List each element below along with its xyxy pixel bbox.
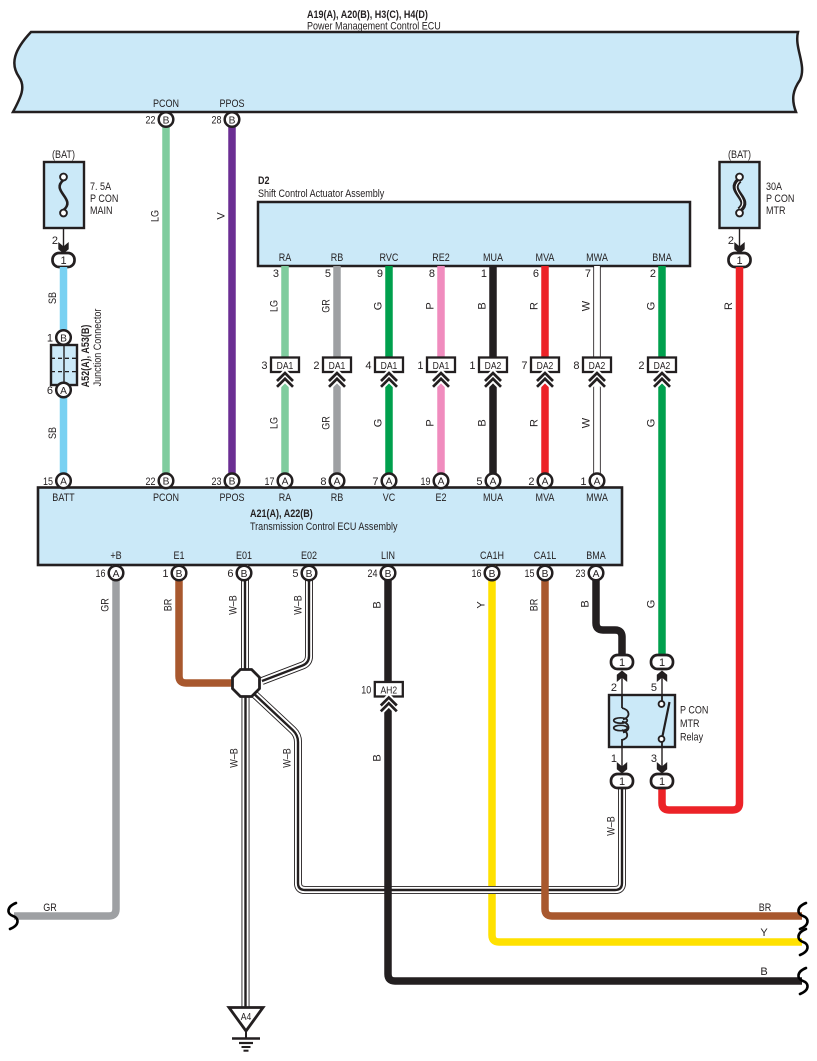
svg-text:PPOS: PPOS (219, 492, 244, 504)
svg-text:BR: BR (163, 599, 175, 612)
svg-text:23: 23 (576, 568, 586, 580)
svg-text:PCON: PCON (153, 492, 179, 504)
pin 16(B) CA1H bottom (485, 566, 500, 581)
svg-text:9: 9 (377, 268, 383, 280)
svg-text:W–B: W–B (606, 816, 618, 836)
svg-text:R: R (723, 302, 735, 310)
wire W-B E01 to splice (241, 565, 249, 676)
svg-text:3: 3 (651, 753, 657, 765)
svg-text:B: B (60, 333, 67, 344)
svg-text:B: B (385, 569, 392, 580)
svg-text:2: 2 (650, 268, 656, 280)
connector 8 DA2 at x=597 (583, 358, 611, 373)
connector 1 DA2 at x=493 (479, 358, 507, 373)
svg-text:BR: BR (759, 902, 772, 914)
svg-text:1: 1 (469, 360, 475, 372)
svg-text:2: 2 (528, 476, 534, 488)
svg-text:RB: RB (331, 252, 344, 264)
svg-text:MTR: MTR (766, 205, 786, 217)
svg-text:A: A (60, 386, 67, 397)
svg-text:B: B (176, 569, 183, 580)
svg-text:B: B (580, 600, 592, 607)
pin 1(A) MWA top (590, 474, 605, 489)
svg-text:B: B (477, 419, 489, 426)
svg-text:1: 1 (47, 333, 53, 345)
svg-text:1: 1 (60, 255, 66, 267)
svg-text:8: 8 (573, 360, 579, 372)
svg-text:B: B (372, 754, 384, 761)
wire SB (60, 267, 68, 481)
wire GR +B (14, 565, 116, 916)
svg-text:P CON: P CON (90, 193, 118, 205)
svg-text:A: A (386, 477, 393, 488)
svg-text:W: W (581, 417, 593, 428)
break mark BR right (798, 903, 807, 929)
svg-text:P CON: P CON (680, 705, 708, 717)
svg-text:A21(A), A22(B): A21(A), A22(B) (250, 508, 313, 520)
connector 3 DA1 at x=285 (271, 358, 299, 373)
svg-text:B: B (372, 601, 384, 608)
pin 7(A) VC top (382, 474, 397, 489)
svg-text:Shift Control Actuator Assembl: Shift Control Actuator Assembly (258, 188, 385, 200)
svg-text:3: 3 (261, 360, 267, 372)
svg-text:GR: GR (321, 416, 333, 430)
wire PCON LG (162, 112, 170, 481)
svg-text:A: A (60, 477, 67, 488)
svg-text:23: 23 (212, 476, 222, 488)
svg-text:G: G (646, 419, 658, 428)
svg-text:CA1H: CA1H (480, 550, 504, 562)
svg-text:MTR: MTR (680, 718, 700, 730)
wire BR CA1L (545, 565, 802, 916)
svg-text:MAIN: MAIN (90, 205, 113, 217)
svg-text:5: 5 (325, 268, 331, 280)
svg-text:RE2: RE2 (432, 252, 450, 264)
svg-text:5: 5 (292, 568, 298, 580)
svg-text:B: B (163, 477, 170, 488)
svg-text:Transmission Control ECU Assem: Transmission Control ECU Assembly (250, 521, 398, 533)
svg-text:W–B: W–B (229, 748, 241, 768)
connector 4 DA1 at x=389 (375, 358, 403, 373)
pin 24(B) LIN bottom (381, 566, 396, 581)
svg-text:MUA: MUA (483, 492, 504, 504)
svg-text:V: V (216, 212, 228, 220)
wire R from D2 x=545 (541, 266, 549, 481)
pin 1(B) E1 bottom (172, 566, 187, 581)
svg-text:LG: LG (269, 300, 281, 312)
svg-text:R: R (529, 419, 541, 427)
svg-text:7. 5A: 7. 5A (90, 181, 112, 193)
svg-text:Relay: Relay (680, 732, 704, 744)
svg-text:1: 1 (736, 255, 742, 267)
svg-text:2: 2 (611, 682, 617, 694)
svg-text:MWA: MWA (586, 492, 608, 504)
svg-text:15: 15 (43, 476, 53, 488)
connector 1 DA1 at x=441 (427, 358, 455, 373)
svg-text:B: B (229, 477, 236, 488)
svg-text:A19(A), A20(B), H3(C), H4(D): A19(A), A20(B), H3(C), H4(D) (307, 9, 428, 21)
svg-text:1: 1 (481, 268, 487, 280)
svg-text:2: 2 (313, 360, 319, 372)
svg-text:D2: D2 (258, 175, 270, 187)
svg-text:5: 5 (476, 476, 482, 488)
svg-text:A: A (490, 477, 497, 488)
svg-text:PCON: PCON (153, 98, 179, 110)
svg-text:A: A (542, 477, 549, 488)
svg-text:22: 22 (146, 476, 156, 488)
wire G from D2 x=389 (385, 266, 393, 481)
svg-text:1: 1 (619, 657, 625, 669)
wire LG from D2 x=285 (281, 266, 289, 481)
svg-text:1: 1 (162, 568, 168, 580)
svg-text:VC: VC (383, 492, 396, 504)
svg-text:28: 28 (212, 115, 222, 127)
connector 7 DA2 at x=545 (531, 358, 559, 373)
svg-text:B: B (241, 569, 248, 580)
svg-text:RB: RB (331, 492, 344, 504)
svg-text:17: 17 (265, 476, 275, 488)
svg-text:1: 1 (580, 476, 586, 488)
svg-text:3: 3 (273, 268, 279, 280)
wire W (MWA) (593, 266, 601, 481)
svg-text:A: A (438, 477, 445, 488)
svg-text:MUA: MUA (483, 252, 504, 264)
svg-text:15: 15 (525, 568, 535, 580)
relay P CON MTR Relay (609, 695, 675, 747)
svg-text:30A: 30A (766, 181, 783, 193)
wire B LIN (388, 565, 802, 981)
svg-text:A: A (334, 477, 341, 488)
svg-text:1: 1 (611, 753, 617, 765)
svg-text:PPOS: PPOS (219, 98, 244, 110)
svg-text:W: W (581, 300, 593, 311)
svg-text:W–B: W–B (228, 595, 240, 615)
svg-text:RVC: RVC (380, 252, 399, 264)
svg-text:A: A (594, 477, 601, 488)
svg-text:BMA: BMA (652, 252, 672, 264)
svg-text:7: 7 (521, 360, 527, 372)
svg-text:GR: GR (100, 598, 112, 612)
svg-text:5: 5 (651, 682, 657, 694)
pin 16(A) +B bottom (109, 566, 124, 581)
svg-text:A: A (593, 569, 600, 580)
pin 5(B) E02 bottom (302, 566, 317, 581)
svg-text:7: 7 (372, 476, 378, 488)
svg-text:6: 6 (533, 268, 539, 280)
wire B from D2 x=493 (489, 266, 497, 481)
ECU pin 22(B) PCON (159, 112, 174, 127)
pin 15(A) BATT top (56, 474, 71, 489)
break mark GR left (8, 903, 17, 929)
svg-text:8: 8 (320, 476, 326, 488)
svg-text:BR: BR (529, 599, 541, 612)
svg-text:G: G (373, 419, 385, 428)
break mark Y right (798, 929, 807, 955)
wire W-B splice to relay pin 1 (251, 691, 622, 890)
pin 23(A) BMA bottom (589, 566, 604, 581)
svg-text:G: G (646, 600, 658, 609)
svg-text:W–B: W–B (282, 748, 294, 768)
svg-text:GR: GR (321, 299, 333, 313)
relay connector ovals above (621, 677, 623, 695)
svg-text:A4: A4 (241, 1011, 252, 1023)
break mark B right (798, 968, 807, 994)
svg-text:P: P (425, 302, 437, 309)
svg-text:MVA: MVA (536, 252, 555, 264)
svg-text:Y: Y (476, 601, 488, 609)
splice junction (octagon) (233, 670, 260, 697)
svg-text:2: 2 (638, 360, 644, 372)
svg-text:E01: E01 (236, 550, 252, 562)
TCU box: A21(A), A22(B) Transmission Control ECU Assembly (38, 488, 622, 566)
D2 Shift Control Actuator Assembly box (258, 202, 690, 266)
connector 2 DA1 at x=337 (323, 358, 351, 373)
junction connector A52(A), A53(B) (56, 330, 71, 345)
svg-text:B: B (489, 569, 496, 580)
pin 22(B) PCON top (159, 474, 174, 489)
svg-text:(BAT): (BAT) (728, 149, 751, 161)
svg-text:10: 10 (361, 685, 371, 697)
svg-text:RA: RA (279, 492, 292, 504)
svg-text:E02: E02 (301, 550, 317, 562)
pin 19(A) E2 top (434, 474, 449, 489)
svg-text:B: B (760, 966, 767, 978)
ground A4 (229, 1008, 263, 1032)
svg-text:B: B (229, 115, 236, 126)
svg-text:24: 24 (368, 568, 378, 580)
svg-text:P CON: P CON (766, 193, 794, 205)
svg-text:+B: +B (110, 550, 121, 562)
svg-text:P: P (425, 419, 437, 426)
svg-text:E1: E1 (174, 550, 185, 562)
svg-text:B: B (163, 115, 170, 126)
wire B BMA to relay pin 2 (596, 565, 622, 658)
wire P from D2 x=441 (437, 266, 445, 481)
svg-text:6: 6 (227, 568, 233, 580)
ECU pin 28(B) PPOS (225, 112, 240, 127)
svg-text:22: 22 (146, 115, 156, 127)
connector 2 DA2 at x=662 (648, 358, 676, 373)
svg-text:BATT: BATT (52, 492, 75, 504)
svg-text:16: 16 (96, 568, 106, 580)
svg-text:GR: GR (43, 902, 57, 914)
wire PPOS V (228, 112, 236, 481)
pin 2(A) MVA top (538, 474, 553, 489)
connector 10 AH2 (375, 682, 403, 697)
wire BR E1 to splice (179, 565, 234, 683)
ECU box: Power Management Control ECU A19(A), A20(B), H3(C), H4(D) (13, 32, 802, 112)
pin 23(B) PPOS top (225, 474, 240, 489)
svg-text:6: 6 (47, 385, 53, 397)
svg-text:2: 2 (728, 235, 734, 247)
svg-text:1: 1 (659, 657, 665, 669)
svg-text:B: B (542, 569, 549, 580)
svg-text:E2: E2 (436, 492, 447, 504)
svg-text:LIN: LIN (381, 550, 395, 562)
svg-text:A52(A), A53(B): A52(A), A53(B) (80, 324, 92, 387)
svg-text:G: G (646, 302, 658, 311)
svg-text:(BAT): (BAT) (52, 149, 75, 161)
wire R from fuse to relay (662, 267, 740, 810)
pin 5(A) MUA top (486, 474, 501, 489)
pin 17(A) RA top (278, 474, 293, 489)
svg-text:Junction Connector: Junction Connector (92, 308, 104, 386)
svg-text:SB: SB (47, 292, 59, 304)
svg-text:19: 19 (421, 476, 431, 488)
svg-text:RA: RA (279, 252, 292, 264)
svg-text:BMA: BMA (586, 550, 606, 562)
pin 15(B) CA1L bottom (538, 566, 553, 581)
svg-text:1: 1 (417, 360, 423, 372)
svg-text:4: 4 (365, 360, 371, 372)
svg-text:MVA: MVA (536, 492, 555, 504)
pin 6(B) E01 bottom (237, 566, 252, 581)
svg-text:G: G (373, 302, 385, 311)
svg-text:W–B: W–B (293, 595, 305, 615)
svg-text:16: 16 (472, 568, 482, 580)
svg-text:1: 1 (659, 776, 665, 788)
svg-text:A: A (113, 569, 120, 580)
svg-text:2: 2 (52, 235, 58, 247)
svg-text:A: A (282, 477, 289, 488)
svg-text:LG: LG (150, 210, 162, 222)
svg-text:SB: SB (47, 427, 59, 439)
relay connector ovals below (621, 747, 623, 770)
pin 8(A) RB top (330, 474, 345, 489)
svg-text:1: 1 (619, 776, 625, 788)
wire GR from D2 x=337 (333, 266, 341, 481)
wire G (BMA) from D2 to relay (658, 266, 666, 658)
svg-text:B: B (306, 569, 313, 580)
svg-text:R: R (529, 302, 541, 310)
wire W-B E02 to splice (262, 565, 309, 681)
wire W-B splice to ground A4 (242, 690, 250, 1008)
svg-text:B: B (477, 302, 489, 309)
svg-text:CA1L: CA1L (534, 550, 557, 562)
svg-text:MWA: MWA (586, 252, 608, 264)
svg-text:Y: Y (760, 927, 768, 939)
svg-text:8: 8 (429, 268, 435, 280)
svg-text:LG: LG (269, 417, 281, 429)
wire Y CA1H (492, 565, 802, 942)
svg-text:Power Management Control ECU: Power Management Control ECU (307, 21, 441, 33)
svg-text:7: 7 (585, 268, 591, 280)
